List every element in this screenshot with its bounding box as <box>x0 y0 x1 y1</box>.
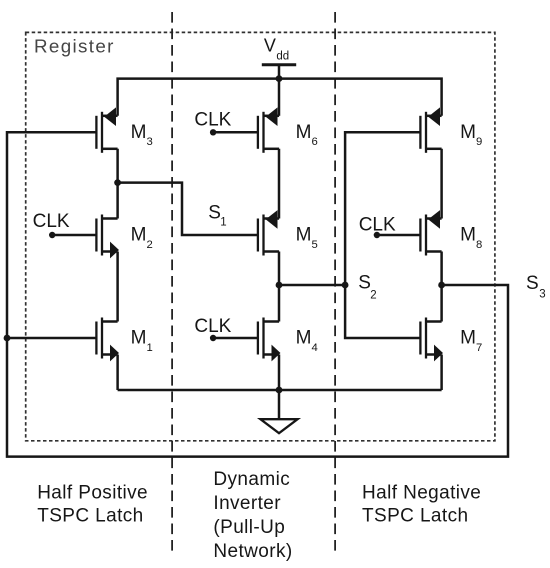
svg-text:M: M <box>460 122 476 143</box>
junction: node S2 at gate riser <box>342 282 349 289</box>
section separator dashed line 2 <box>334 12 336 552</box>
svg-text:M: M <box>296 225 312 246</box>
svg-text:TSPC Latch: TSPC Latch <box>37 506 143 527</box>
svg-text:CLK: CLK <box>194 316 231 337</box>
register boundary box <box>26 32 495 440</box>
svg-text:CLK: CLK <box>194 110 231 131</box>
svg-text:2: 2 <box>147 239 153 251</box>
wire: node S1 to M5 gate <box>118 183 258 235</box>
svg-text:V: V <box>264 35 276 55</box>
wire: M4 source to ground rail <box>278 355 281 391</box>
svg-text:M: M <box>131 122 147 143</box>
svg-text:CLK: CLK <box>359 215 396 236</box>
svg-text:M: M <box>131 225 147 246</box>
wire: Vdd power rail with end drops to M3 and M9 drains <box>118 79 442 116</box>
svg-text:1: 1 <box>220 217 226 229</box>
transistor M8 (PMOS) <box>420 210 441 255</box>
section separator dashed line 1 <box>171 12 173 552</box>
CLK input terminal to M6 gate <box>210 129 216 135</box>
CLK input terminal to M2 gate <box>49 232 55 238</box>
svg-text:TSPC Latch: TSPC Latch <box>362 506 468 527</box>
transistor M9 (PMOS) <box>420 107 441 152</box>
svg-text:4: 4 <box>312 342 318 354</box>
CLK input terminal to M8 gate <box>374 232 380 238</box>
svg-text:CLK: CLK <box>33 211 70 232</box>
transistor M1 (NMOS) <box>96 318 119 362</box>
wire: ground rail <box>118 389 442 392</box>
svg-text:M: M <box>296 122 312 143</box>
svg-text:S: S <box>208 202 221 223</box>
wire: node S3 output and feedback loop to M3 gate <box>7 132 508 456</box>
svg-text:Half Positive: Half Positive <box>37 483 148 504</box>
transistor M4 (NMOS) <box>258 318 281 362</box>
junction: feedback tap to M1 gate <box>4 335 11 342</box>
svg-text:8: 8 <box>476 239 482 251</box>
transistor M2 (NMOS) <box>96 215 119 259</box>
svg-text:3: 3 <box>147 136 153 148</box>
svg-text:M: M <box>460 225 476 246</box>
svg-text:6: 6 <box>312 136 318 148</box>
transistor M7 (NMOS) <box>420 318 443 362</box>
svg-text:S: S <box>358 272 371 293</box>
wire: M3 source to M2 drain <box>116 149 119 219</box>
junction: node S3 tap <box>438 282 445 289</box>
wire: feedback to M1 gate <box>7 337 96 340</box>
svg-text:9: 9 <box>476 136 482 148</box>
svg-text:3: 3 <box>539 289 545 301</box>
wire: M7 source to ground rail <box>440 355 443 391</box>
svg-text:7: 7 <box>476 342 482 354</box>
svg-text:1: 1 <box>147 342 153 354</box>
svg-text:M: M <box>460 328 476 349</box>
CLK input terminal to M4 gate <box>210 335 216 341</box>
wire: M5 source to M4 drain across node S2 <box>278 252 281 322</box>
svg-text:Register: Register <box>34 35 115 56</box>
svg-text:dd: dd <box>276 51 289 63</box>
junction: ground tap <box>276 387 283 394</box>
Vdd supply symbol <box>262 63 296 66</box>
wire: M8 source to M7 drain across node S3 <box>440 252 443 322</box>
svg-text:S: S <box>526 273 539 294</box>
svg-text:5: 5 <box>312 239 318 251</box>
svg-text:(Pull-Up: (Pull-Up <box>213 517 285 538</box>
svg-text:Half Negative: Half Negative <box>362 483 481 504</box>
wire: M6 source to M5 drain <box>278 149 281 219</box>
wire: M6 drain to Vdd rail <box>278 79 281 116</box>
wire: node S2 to M7 gate <box>345 285 420 338</box>
transistor M5 (PMOS) <box>258 210 279 255</box>
wire: node S2 <box>279 284 345 287</box>
wire: M9 source to M8 drain <box>440 149 443 219</box>
junction: node S1 tap <box>114 179 121 186</box>
svg-text:M: M <box>296 328 312 349</box>
junction: node S2 at column 2 <box>276 282 283 289</box>
svg-text:Dynamic: Dynamic <box>213 469 290 490</box>
transistor M3 (PMOS) <box>96 107 117 152</box>
wire: M1 source to ground rail <box>116 355 119 391</box>
svg-text:Network): Network) <box>213 541 292 562</box>
svg-text:M: M <box>131 328 147 349</box>
junction: Vdd tap on rail <box>276 75 283 82</box>
transistor M6 (PMOS) <box>258 107 279 152</box>
svg-text:2: 2 <box>370 290 376 302</box>
ground <box>278 390 281 419</box>
wire: node S2 to M9 gate <box>345 132 420 285</box>
svg-text:Inverter: Inverter <box>213 493 281 514</box>
wire: M2 source to M1 drain <box>116 252 119 322</box>
